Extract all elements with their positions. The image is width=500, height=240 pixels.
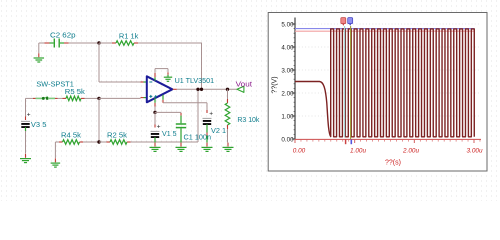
node B junction (R5 / +input / divider): [97, 97, 100, 100]
wire node C to R2: [99, 141, 107, 143]
node A junction (C2/R1/inverting input): [97, 41, 100, 44]
cursor b bottom handle: [350, 140, 352, 145]
svg-text:C2 62p: C2 62p: [50, 30, 76, 39]
ground GND-R4: [51, 158, 61, 167]
resistor R2 5k: [107, 140, 131, 145]
resistor R3 10k: [225, 89, 230, 142]
node F junction (output/R1 feedback): [200, 88, 203, 91]
pin OUT of U1: [173, 88, 177, 90]
ground GND-V2: [202, 143, 213, 152]
svg-text:0.00: 0.00: [293, 147, 306, 154]
svg-text:R1 1k: R1 1k: [119, 32, 139, 41]
resistor R1 1k: [112, 41, 138, 46]
ground GND-C2 (top-left): [34, 43, 45, 62]
svg-text:+: +: [157, 123, 161, 130]
svg-text:R2 5k: R2 5k: [107, 130, 127, 139]
wire V3 branch down: [25, 98, 27, 116]
cursor a reference hline (blue): [295, 28, 474, 30]
svg-text:U1 TLV3501: U1 TLV3501: [175, 76, 215, 85]
svg-text:??(V): ??(V): [272, 76, 279, 93]
svg-text:3.00u: 3.00u: [467, 147, 483, 154]
wire node D to C1: [155, 111, 181, 113]
wire output net: [177, 88, 237, 90]
cursor a vertical line: [344, 26, 346, 138]
wire node A to R1: [99, 42, 112, 44]
x axis (red): [295, 139, 481, 143]
scope panel background: [268, 13, 487, 172]
wire V3 to ground: [25, 131, 27, 154]
cursor a bottom handle: [345, 140, 347, 145]
pin IN+ of U1: [141, 97, 147, 99]
node E junction (output/R2): [196, 88, 199, 91]
ground GND-C1: [176, 143, 187, 152]
wire R1 to feedback corner: [138, 42, 202, 44]
op-amp U1 TLV3501 triangle: [147, 76, 173, 102]
node G junction (output/R3): [226, 88, 229, 91]
ground GND-V1: [150, 143, 161, 152]
svg-text:V1 5: V1 5: [162, 129, 177, 138]
wire divider row: corner to R4: [55, 141, 59, 143]
voltage source V1 5: [151, 112, 161, 142]
cursor b reference hline (pink): [295, 30, 474, 32]
svg-text:0.00: 0.00: [281, 136, 294, 143]
svg-text:??(s): ??(s): [385, 160, 401, 167]
svg-text:R5 5k: R5 5k: [65, 87, 85, 96]
node C junction (R4/R2/divider): [97, 140, 100, 143]
wire vertical R2-row up to output: [197, 89, 199, 142]
capacitor C1 100n: [176, 113, 186, 143]
svg-text:2.00u: 2.00u: [402, 147, 419, 154]
cursor b flag: [348, 18, 353, 26]
svg-text:2.00: 2.00: [281, 90, 294, 97]
op-amp input polarity marks: [149, 82, 157, 98]
ground GND-U1: [164, 75, 172, 82]
wire R4 to node C: [83, 141, 99, 143]
svg-text:R4 5k: R4 5k: [61, 130, 81, 139]
wire feedback vertical to output: [201, 43, 203, 90]
svg-text:1.00: 1.00: [281, 113, 294, 120]
capacitor C2 62p: [45, 39, 69, 48]
pin V- of U1 (bottom): [154, 98, 156, 113]
waveform Vout trace: [295, 29, 474, 137]
y axis labels: [281, 21, 294, 143]
resistor R5 5k: [63, 96, 85, 101]
svg-text:R3 10k: R3 10k: [237, 115, 259, 124]
svg-text:4.00: 4.00: [281, 44, 294, 51]
node D junction (V1/C1/V- pin): [153, 111, 156, 114]
svg-text:V2 1: V2 1: [211, 126, 226, 135]
ground GND-V3: [20, 154, 31, 163]
wire node B to non-inverting input: [99, 97, 141, 99]
cursor b vertical line: [350, 26, 352, 139]
svg-text:+: +: [209, 110, 213, 117]
wire switch row from V3 corner: [26, 97, 34, 99]
wire switch to R5: [58, 97, 63, 99]
wire node A down to inverting input: [98, 43, 100, 82]
wire R2 to output (under V1): [131, 141, 199, 143]
svg-text:5.00: 5.00: [281, 21, 294, 28]
svg-text:Vout: Vout: [236, 79, 253, 88]
wire C2 to node A: [39, 42, 45, 44]
svg-text:+: +: [27, 112, 31, 119]
svg-text:1.00u: 1.00u: [350, 147, 366, 154]
pin SHDN of U1 (bottom) to V2: [163, 95, 207, 113]
y axis: [292, 18, 295, 140]
x axis labels: [293, 147, 483, 154]
pin IN- of U1: [141, 81, 147, 83]
cursor a flag: [341, 18, 346, 26]
wire R5 to node B: [85, 97, 100, 99]
resistor R4 5k: [59, 140, 83, 145]
svg-text:V3 5: V3 5: [31, 120, 47, 129]
switch SW-SPST1: [33, 97, 58, 100]
plot horizontal gridlines: [296, 24, 481, 116]
voltage source V3 5: [21, 112, 31, 132]
voltage source V2 1: [203, 110, 214, 142]
ground GND-R3: [223, 143, 234, 152]
svg-text:3.00: 3.00: [281, 67, 294, 74]
output pin Vout arrow: [237, 86, 244, 92]
wire node B down to node C: [98, 98, 100, 142]
pin V+ of U1 (top) to ground: [155, 69, 168, 81]
